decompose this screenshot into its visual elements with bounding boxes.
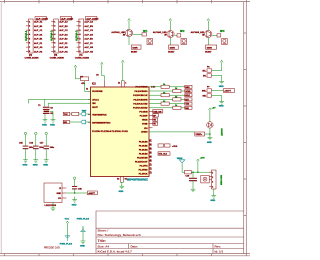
pin stub AVCC xyxy=(88,98,91,100)
svg-text:TEST: TEST xyxy=(82,111,88,113)
svg-text:GND: GND xyxy=(33,165,38,167)
sheet border top line xyxy=(0,1,250,3)
pin stub VUSB xyxy=(149,123,153,125)
svg-text:P6.1/CB1: P6.1/CB1 xyxy=(139,145,149,147)
crystal Y1 with load caps xyxy=(38,105,54,115)
power VCC above D4 xyxy=(209,108,212,115)
wire SPI row 3 xyxy=(149,94,185,96)
junction dot rail xyxy=(197,171,199,173)
capacitor C19 xyxy=(189,177,197,179)
label box row1 xyxy=(185,85,192,88)
svg-text:Rev:: Rev: xyxy=(215,244,222,248)
wire VBUS label down xyxy=(182,163,184,172)
wire Q3 emitter to R6 xyxy=(207,38,209,45)
svg-text:P4.5/UCA1RXD: P4.5/UCA1RXD xyxy=(133,107,148,110)
svg-text:GND: GND xyxy=(72,204,77,206)
wire VCC down to AVCC trace xyxy=(102,69,105,81)
svg-text:Size: A4: Size: A4 xyxy=(98,244,110,248)
resistor R14 xyxy=(173,98,181,101)
svg-text:ALP_C3: ALP_C3 xyxy=(84,29,93,32)
wire C17 bottom xyxy=(45,149,47,156)
svg-text:LM4040: LM4040 xyxy=(221,128,224,136)
svg-text:VBUS: VBUS xyxy=(142,120,148,122)
svg-text:71: 71 xyxy=(150,164,152,166)
wire C15 bottom xyxy=(25,149,27,156)
svg-text:ALP_G3: ALP_G3 xyxy=(84,46,93,49)
pin stub VBUS xyxy=(149,119,153,121)
buzzer LS1 xyxy=(147,39,153,45)
pin stub P5.0 xyxy=(88,90,91,92)
wire Q1 base to D1 xyxy=(133,33,142,35)
resistor R6 xyxy=(206,45,217,49)
ground below U3 xyxy=(51,205,56,211)
wire to R8 xyxy=(70,113,72,115)
svg-text:BT-: BT- xyxy=(203,76,207,78)
svg-text:ALP_D2: ALP_D2 xyxy=(59,33,68,36)
svg-text:GND: GND xyxy=(50,124,55,126)
svg-text:ALP_COM2: ALP_COM2 xyxy=(61,17,74,20)
wire D4 to VREF node xyxy=(205,128,210,134)
ground below C19 xyxy=(191,186,196,192)
pin stub AVCC top xyxy=(123,81,125,88)
op-amp U2 MSP430 MCU body xyxy=(91,87,150,177)
connector P7 pin2 xyxy=(207,94,212,97)
wire F1 to connector xyxy=(209,178,211,180)
pin stub U3 pin1 xyxy=(62,187,66,189)
svg-text:GND: GND xyxy=(42,124,47,126)
svg-text:ALP_C1: ALP_C1 xyxy=(34,29,43,32)
power VCC arrow xyxy=(66,221,69,228)
capacitor C17 xyxy=(43,145,49,147)
svg-text:LD1117S33: LD1117S33 xyxy=(45,205,57,207)
svg-text:TCK: TCK xyxy=(64,114,69,116)
power VCC above MCU center xyxy=(122,60,125,67)
diode D1 xyxy=(142,33,146,36)
svg-text:CONN_01X08: CONN_01X08 xyxy=(75,57,90,59)
wire Q2 collector to VCC xyxy=(169,25,171,30)
svg-text:ALP_B1: ALP_B1 xyxy=(34,25,43,28)
label box comparator row a xyxy=(158,144,164,147)
svg-text:BC817: BC817 xyxy=(168,52,175,54)
svg-text:GND: GND xyxy=(210,200,215,202)
resistor R4 xyxy=(131,45,141,49)
svg-text:CONN_01X08: CONN_01X08 xyxy=(50,57,65,59)
connector P5 pin stubs xyxy=(209,172,211,186)
svg-text:ALPHA-3: ALPHA-3 xyxy=(76,30,79,41)
wire P5 shield to GND xyxy=(213,189,215,193)
net label SBW_TCK xyxy=(63,112,70,115)
svg-text:PU.0/DM: PU.0/DM xyxy=(139,111,147,113)
ground below C17 xyxy=(44,157,49,163)
svg-text:44: 44 xyxy=(150,155,152,158)
ground for C18 net xyxy=(72,197,77,203)
wire Q2 emitter to R5 xyxy=(170,38,172,45)
label box VREF xyxy=(195,132,205,136)
svg-text:59: 59 xyxy=(150,148,152,150)
resistor R5 xyxy=(169,45,179,49)
svg-text:VBUS: VBUS xyxy=(177,158,183,160)
wire SPI row 2 xyxy=(149,90,185,92)
svg-text:ALP_E2: ALP_E2 xyxy=(59,38,68,41)
sheet border bottom outer line xyxy=(0,255,250,257)
svg-text:XOUT: XOUT xyxy=(92,107,98,109)
svg-text:PWR_FLAG: PWR_FLAG xyxy=(60,242,73,245)
connector P2 pin stubs xyxy=(26,22,29,52)
svg-text:USB_DM: USB_DM xyxy=(153,111,161,113)
wire UART row 5 xyxy=(149,103,185,105)
svg-text:CONN_01X08: CONN_01X08 xyxy=(25,57,40,59)
wire P6 pin1 to VCC xyxy=(212,67,222,71)
wire XIN from crystal xyxy=(29,99,91,103)
svg-text:100n: 100n xyxy=(50,147,55,149)
label box VUSB xyxy=(153,122,158,125)
svg-text:XT2_CLK: XT2_CLK xyxy=(159,154,168,156)
wire SPI row 1 xyxy=(149,86,185,88)
svg-text:ALP_E3: ALP_E3 xyxy=(84,38,93,41)
ground below crystal left xyxy=(43,117,48,123)
wire XOUT from crystal xyxy=(48,102,90,104)
svg-text:P1.0/TA0 P1.1/TA0.0 P1.2/TA0.1: P1.0/TA0 P1.1/TA0.0 P1.2/TA0.1 PJ.0/1 xyxy=(92,130,129,133)
svg-text:AVCC1: AVCC1 xyxy=(92,98,100,101)
svg-text:TEST/SBWTCK: TEST/SBWTCK xyxy=(92,115,107,117)
zener reference D4 LM4040 xyxy=(207,122,213,128)
wire power rail xyxy=(191,171,211,173)
svg-text:P4.3/UCB1STE: P4.3/UCB1STE xyxy=(133,98,148,101)
hierarchical label VBUS xyxy=(179,160,185,163)
resistor R13 xyxy=(161,94,169,97)
label box row5 xyxy=(185,102,192,105)
connector P3 CONN_01X08 xyxy=(50,17,74,60)
svg-text:VCC: VCC xyxy=(65,219,70,221)
svg-text:P6.0/CB0: P6.0/CB0 xyxy=(139,141,149,143)
power +3V3 above C15 xyxy=(24,132,26,138)
svg-text:P4.2/UCB1CLK: P4.2/UCB1CLK xyxy=(133,94,148,97)
wire VCC to DVCC pins xyxy=(122,67,125,81)
resistor R12 xyxy=(173,89,181,92)
power VCC symbol above Q3 xyxy=(207,19,210,26)
pin stub USB DM xyxy=(149,110,153,112)
svg-text:ALP_D1: ALP_D1 xyxy=(34,33,43,36)
connector P3 pin stubs xyxy=(51,22,54,52)
wire VCC to PWR_FLAG xyxy=(66,228,68,238)
svg-text:MSP430F5510IRGZ: MSP430F5510IRGZ xyxy=(127,179,148,182)
svg-text:PRECISE CAD: PRECISE CAD xyxy=(44,246,60,249)
power +3V3 above C17 xyxy=(45,132,47,138)
wire cap drop xyxy=(192,172,194,178)
svg-text:4: 4 xyxy=(212,185,213,188)
svg-text:VREF+: VREF+ xyxy=(196,134,204,136)
wire VCC to R7 xyxy=(76,72,81,79)
pin numbers group C xyxy=(150,140,152,174)
ground below crystal right xyxy=(51,117,56,123)
label box row2 xyxy=(185,90,192,93)
svg-text:ALP_COM3: ALP_COM3 xyxy=(86,17,99,20)
junction dot cap xyxy=(192,171,194,173)
wire VCC drop xyxy=(197,166,199,173)
frame column ticks top xyxy=(5,0,212,3)
wire C18 bottom to output net xyxy=(74,190,76,193)
pin stubs group C xyxy=(149,142,152,174)
wire C17 top xyxy=(45,138,47,145)
transistor Q1 xyxy=(125,29,132,36)
pin stub AVSS bottom xyxy=(123,177,125,183)
svg-text:58: 58 xyxy=(150,144,152,146)
frame column ticks bottom xyxy=(5,254,212,256)
power VCC above MCU left xyxy=(101,62,104,69)
svg-text:SP1: SP1 xyxy=(143,31,148,33)
power VCC above R7 xyxy=(74,65,77,72)
svg-text:+BATT: +BATT xyxy=(224,90,231,93)
svg-text:45: 45 xyxy=(150,159,152,162)
ground below P6 xyxy=(219,78,224,84)
wire P6 pin2 to GND xyxy=(212,76,222,79)
wire Q1 collector to VCC xyxy=(128,25,130,29)
transistor Q2 xyxy=(167,30,174,37)
resistor R8 xyxy=(72,112,79,115)
sheet border left faint line xyxy=(0,2,2,254)
ground below P5 xyxy=(211,193,216,199)
svg-text:ALP_H3: ALP_H3 xyxy=(84,50,93,53)
pin stub DVCC top xyxy=(121,81,123,88)
buzzer LS2 xyxy=(181,39,187,45)
svg-text:MINI-USB: MINI-USB xyxy=(221,175,223,185)
wire Q3 base to D3 xyxy=(212,34,217,36)
svg-text:IC2: IC2 xyxy=(92,83,96,86)
svg-text:100R: 100R xyxy=(132,47,138,49)
resistor R7 xyxy=(81,77,89,81)
power VCC symbol above Q1 xyxy=(128,19,131,26)
hierarchical label RST xyxy=(81,120,86,124)
pin stub TEST xyxy=(88,114,91,116)
svg-text:RST/NMI/SBWTDIO: RST/NMI/SBWTDIO xyxy=(92,122,111,124)
svg-text:VO: VO xyxy=(58,198,61,200)
svg-text:ALP_A3: ALP_A3 xyxy=(84,21,93,24)
svg-text:PJ.1/TDI: PJ.1/TDI xyxy=(140,165,148,167)
connector P4 pin stubs xyxy=(76,22,79,52)
ground below C15 xyxy=(23,157,28,163)
svg-text:P4.0/UCB1SI: P4.0/UCB1SI xyxy=(135,86,147,89)
svg-text:GND: GND xyxy=(80,246,85,248)
svg-text:TXD: TXD xyxy=(185,104,189,106)
resistor R16 xyxy=(173,106,181,109)
svg-text:SW-: SW- xyxy=(202,96,206,98)
connector P7 pin1 xyxy=(207,89,212,92)
svg-text:1: 1 xyxy=(212,172,213,174)
power +3V3 above C18 xyxy=(73,177,75,183)
polyfuse F1 xyxy=(201,176,209,183)
title block outline xyxy=(96,211,244,254)
svg-text:PWR_FLAG: PWR_FLAG xyxy=(77,218,90,221)
wire P7 pin1 to BATT label xyxy=(212,90,224,92)
svg-text:ALP_C2: ALP_C2 xyxy=(59,29,68,32)
connector P3 body xyxy=(54,19,59,53)
junction dot output xyxy=(74,192,76,194)
net label SBW_TDIO xyxy=(63,120,69,123)
label box XT2 xyxy=(158,152,170,155)
svg-text:P6.2/CB2: P6.2/CB2 xyxy=(139,149,149,151)
svg-text:DIO: DIO xyxy=(64,122,68,124)
hierarchical label TEST xyxy=(81,112,86,116)
sheet border right inner line xyxy=(243,2,245,254)
svg-text:GND: GND xyxy=(219,86,224,88)
connector P2 label box pin1 xyxy=(35,17,47,20)
connector P6 pin1 xyxy=(207,69,212,72)
pin stub VSS bottom xyxy=(119,177,121,183)
svg-text:Date:: Date: xyxy=(131,244,139,248)
connector P2 body xyxy=(29,19,34,53)
capacitor C18 xyxy=(72,186,77,188)
pin stub U3 pin2 xyxy=(62,192,66,194)
power +3V3 above C16 xyxy=(35,132,37,138)
connector P3 label box pin1 xyxy=(60,17,71,20)
label box row4 xyxy=(185,98,192,101)
svg-text:KiCad E.D.A. kicad 4.0.7: KiCad E.D.A. kicad 4.0.7 xyxy=(98,249,133,253)
wire UART row 6 xyxy=(149,107,185,109)
power VCC above P6 xyxy=(220,60,223,67)
connector P6 pin2 xyxy=(207,74,212,77)
transistor Q3 xyxy=(205,30,212,37)
capacitor C16 xyxy=(33,145,39,147)
svg-text:XIN: XIN xyxy=(92,103,96,105)
wire R8 to TEST sheet label xyxy=(79,113,91,115)
ground symbol below MCU xyxy=(119,183,124,189)
svg-text:P5.3/XT2OUT: P5.3/XT2OUT xyxy=(135,161,148,163)
svg-text:57: 57 xyxy=(150,140,152,142)
diode D2 xyxy=(177,34,181,37)
wire U3 gnd pin down xyxy=(52,203,54,206)
connector P2 CONN_01X08 xyxy=(25,17,49,60)
connector P4 label box pin1 xyxy=(85,17,97,20)
wire PWR_FLAG to GND xyxy=(82,226,84,238)
wire V18 to reference regulator xyxy=(149,131,195,133)
svg-text:P6.3/CB3: P6.3/CB3 xyxy=(139,153,149,155)
buzzer LS3 xyxy=(222,39,228,45)
svg-text:Id: 1/1: Id: 1/1 xyxy=(215,249,224,253)
svg-text:ALP_H1: ALP_H1 xyxy=(34,50,43,53)
wire SPI row 4 xyxy=(149,98,185,100)
diode D3 xyxy=(217,34,221,37)
pin stub RST xyxy=(88,121,91,123)
svg-text:P4.4/UCA1TXD: P4.4/UCA1TXD xyxy=(133,103,148,106)
svg-text:VUSB: VUSB xyxy=(142,124,148,126)
label box row3 xyxy=(185,94,192,97)
svg-text:ALP_COM1: ALP_COM1 xyxy=(36,17,49,20)
power flag PWR_FLAG bottom left xyxy=(65,236,70,241)
svg-text:100R: 100R xyxy=(207,47,213,49)
label box USB_DM xyxy=(153,110,163,113)
label box +BATT xyxy=(88,191,98,195)
wire crystal to ground left xyxy=(44,113,46,116)
wire R7 to P5.0 pin xyxy=(85,79,91,92)
wire Q3 collector to VCC xyxy=(207,25,209,30)
svg-text:Title:: Title: xyxy=(98,239,107,243)
wire bottom pins join xyxy=(120,181,123,184)
svg-text:P5.0/VUSB: P5.0/VUSB xyxy=(92,91,103,93)
svg-text:ALP_B2: ALP_B2 xyxy=(59,25,68,28)
ferrite bead FB1 xyxy=(185,171,192,174)
power +3V3 above rail xyxy=(197,159,200,166)
svg-text:ALPHA-2: ALPHA-2 xyxy=(50,30,53,41)
regulator U3 body xyxy=(44,183,62,203)
svg-text:SCLK: SCLK xyxy=(185,95,190,97)
pin stub U3 pin3 xyxy=(62,197,66,199)
pin stub USB DP xyxy=(149,115,153,117)
svg-text:3: 3 xyxy=(212,182,213,184)
svg-text:ALP_B3: ALP_B3 xyxy=(84,25,93,28)
junction dot VREF xyxy=(209,133,211,135)
wire C16 top xyxy=(35,138,37,145)
ground below PWR_FLAG xyxy=(81,238,86,244)
svg-text:12: 12 xyxy=(86,89,88,91)
svg-text:GND: GND xyxy=(43,165,48,167)
capacitor C15 xyxy=(23,145,29,147)
svg-text:ALP_G1: ALP_G1 xyxy=(34,46,43,49)
power VCC symbol above Q2 xyxy=(169,19,172,26)
svg-text:60: 60 xyxy=(150,152,152,154)
resistor R11 xyxy=(161,85,169,88)
wire VCC to D4 xyxy=(209,114,211,121)
svg-text:GND: GND xyxy=(57,193,62,195)
connector P5 pin numbers xyxy=(212,172,213,188)
pin stub XIN xyxy=(88,102,91,104)
pin stub AVSS2 xyxy=(149,127,153,129)
connector P2 pin net labels xyxy=(34,21,43,54)
wire crystal to ground right xyxy=(50,111,54,116)
wire C18 top xyxy=(74,183,76,186)
title block divider lines xyxy=(96,227,244,229)
connector P3 pin net labels xyxy=(59,21,68,54)
frame row ticks right xyxy=(244,33,247,216)
wire U3 output to BATT label xyxy=(66,192,87,194)
svg-text:ALP_A2: ALP_A2 xyxy=(59,21,68,24)
wire Q2 base to D2 xyxy=(174,34,177,36)
wire crystal drops xyxy=(45,99,48,106)
svg-text:73: 73 xyxy=(150,172,152,174)
svg-text:ALP_H2: ALP_H2 xyxy=(59,50,68,53)
svg-text:PJ.3/TCK: PJ.3/TCK xyxy=(139,173,148,175)
svg-text:+3V3: +3V3 xyxy=(172,146,178,148)
ground below P7 xyxy=(219,99,224,105)
svg-text:100R: 100R xyxy=(170,47,176,49)
svg-text:GND: GND xyxy=(219,106,224,108)
label box +BATT right xyxy=(224,89,235,93)
wire C16 bottom xyxy=(35,149,37,156)
wire P7 pin2 to GND xyxy=(212,96,222,99)
connector pin numbers xyxy=(29,22,31,54)
svg-text:2: 2 xyxy=(212,177,213,179)
label box row6 xyxy=(185,106,192,109)
wire to RST sheet label xyxy=(70,121,91,123)
svg-text:File: Technology_Network.sch: File: Technology_Network.sch xyxy=(98,233,141,237)
svg-text:P5.2/XT2IN: P5.2/XT2IN xyxy=(137,157,148,159)
connector P4 pin net labels xyxy=(84,21,93,54)
svg-text:ALP_F1: ALP_F1 xyxy=(34,42,43,45)
svg-text:72: 72 xyxy=(150,168,152,170)
connector P5 USB body xyxy=(212,170,216,189)
svg-text:SIMO: SIMO xyxy=(185,87,190,89)
connector pin numbers xyxy=(54,22,56,54)
label box VBUS xyxy=(153,118,158,121)
svg-text:ALP_D3: ALP_D3 xyxy=(84,33,93,36)
ground below D4 xyxy=(208,134,213,140)
connector pin numbers xyxy=(79,22,81,54)
svg-text:PJ.2/TMS: PJ.2/TMS xyxy=(139,169,149,171)
label box comparator row b xyxy=(165,144,171,147)
svg-text:SP3: SP3 xyxy=(220,31,225,33)
svg-text:SP2: SP2 xyxy=(180,31,185,33)
connector P4 body xyxy=(79,19,84,53)
svg-text:SOMI: SOMI xyxy=(185,91,190,93)
